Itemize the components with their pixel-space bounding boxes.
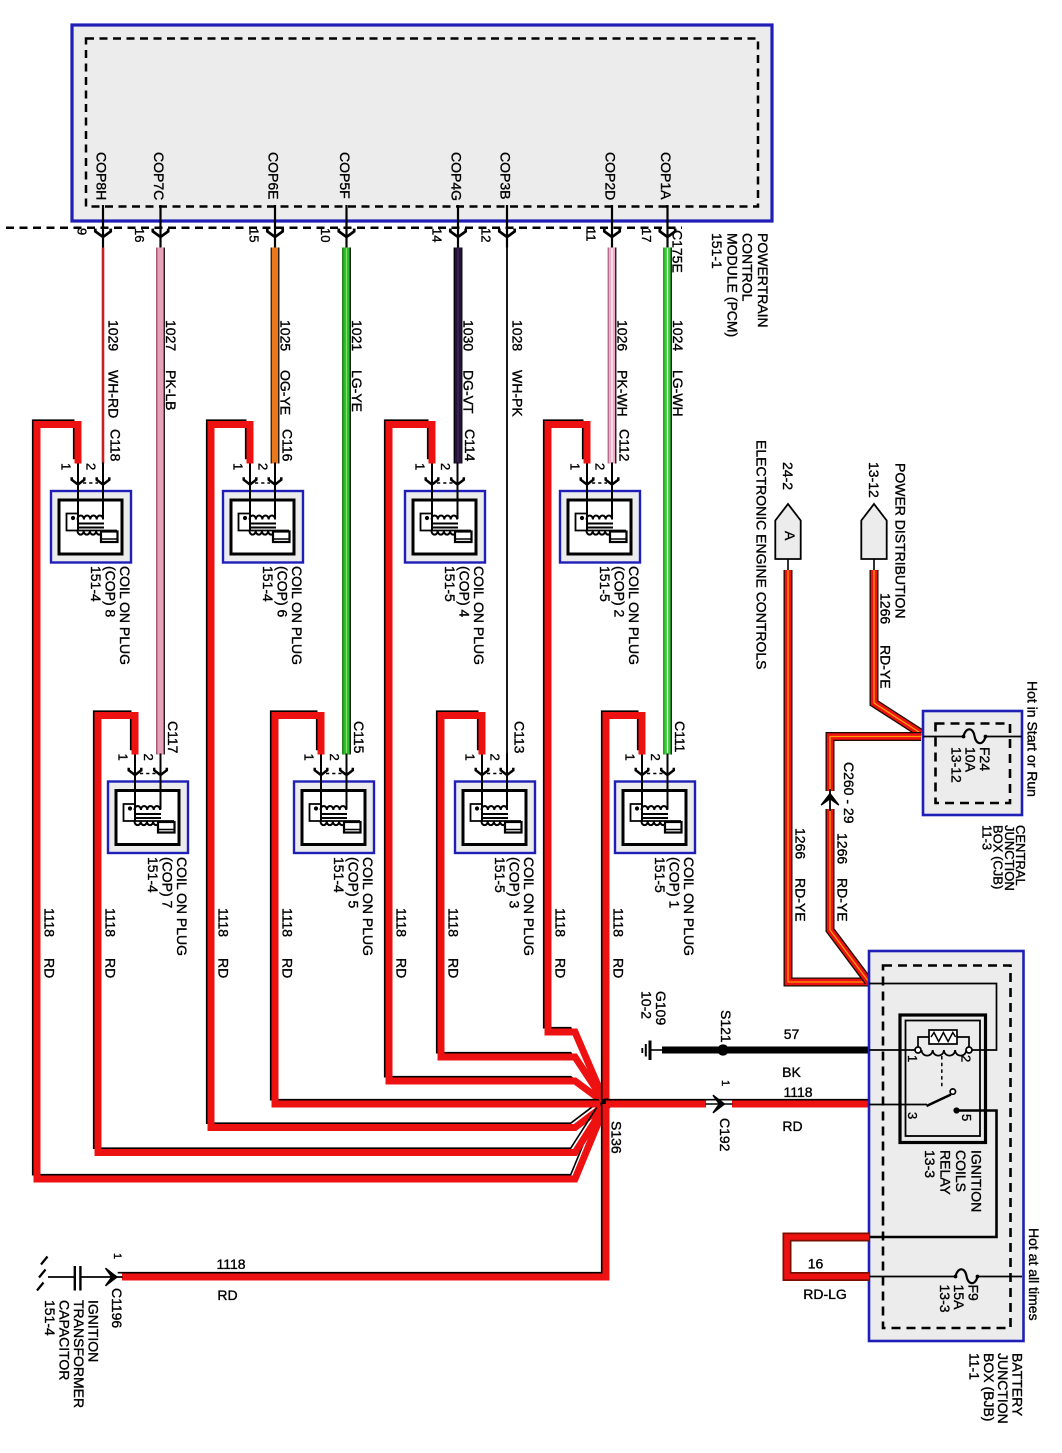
coil on plug COP 7 box <box>108 782 188 854</box>
svg-text:C113: C113 <box>512 721 528 754</box>
svg-text:COILS: COILS <box>953 1150 969 1192</box>
COP 3 connector dashes <box>487 773 502 775</box>
svg-text:RD-YE: RD-YE <box>835 878 851 922</box>
COP 6 pin 2 <box>256 463 282 520</box>
svg-text:151-5: 151-5 <box>652 857 668 893</box>
S121 label <box>718 1010 734 1043</box>
off-page arrow A 24-2 <box>775 504 800 570</box>
POWER DISTRIBUTION label <box>893 463 909 619</box>
svg-text:COP5F: COP5F <box>337 152 353 199</box>
fuse F9 15A <box>869 1269 1022 1283</box>
svg-text:12: 12 <box>479 228 494 242</box>
wire 1118 RD label (COP2 run) <box>553 908 569 937</box>
svg-text:COP7C: COP7C <box>151 152 167 200</box>
svg-text:11-1: 11-1 <box>967 1353 983 1380</box>
svg-text:POWERTRAIN: POWERTRAIN <box>755 233 771 328</box>
svg-text:WH-PK: WH-PK <box>510 370 526 417</box>
svg-text:1: 1 <box>623 754 638 761</box>
ELECTRONIC ENGINE CONTROLS label <box>754 440 770 669</box>
C1196 label <box>109 1288 125 1328</box>
COP 7 label <box>145 857 190 956</box>
svg-text:1118: 1118 <box>446 908 462 937</box>
wire 1118 RD label (COP5 run) <box>280 908 296 937</box>
svg-text:1: 1 <box>568 463 583 470</box>
svg-text:1118: 1118 <box>216 1256 245 1272</box>
relay coil <box>915 1030 972 1056</box>
COP 6 connector dashes <box>255 482 270 484</box>
IGNITION COILS RELAY label <box>922 1150 985 1212</box>
PCM pin 17 COP1A <box>639 152 675 248</box>
PCM connector dashed line <box>6 226 682 229</box>
svg-text:1: 1 <box>719 1080 731 1086</box>
wire 1266 RD-YE from power distribution <box>874 570 922 734</box>
svg-text:MODULE (PCM): MODULE (PCM) <box>724 233 740 337</box>
powertrain control module PCM box 151-1 <box>72 25 772 221</box>
svg-text:1118: 1118 <box>280 908 296 937</box>
wire 1118 RD label (COP1 run) <box>611 908 627 937</box>
svg-text:2: 2 <box>648 754 663 761</box>
svg-text:RD: RD <box>42 958 58 978</box>
svg-text:2: 2 <box>256 463 271 470</box>
svg-text:14: 14 <box>430 228 445 242</box>
svg-text:RD: RD <box>216 958 232 978</box>
wire 1118 RD label (COP8 run) <box>42 908 58 937</box>
svg-text:1118: 1118 <box>394 908 410 937</box>
svg-text:2: 2 <box>327 754 342 761</box>
svg-text:RD-YE: RD-YE <box>878 645 894 689</box>
PCM pin 15 COP6E <box>247 152 283 248</box>
COP 6 label <box>260 566 305 665</box>
wire 1118 RD to relay <box>606 1100 869 1104</box>
CENTRAL JUNCTION BOX label <box>979 825 1028 891</box>
connector C116 label <box>280 429 296 462</box>
svg-text:RD: RD <box>280 958 296 978</box>
svg-text:RD: RD <box>217 1287 237 1303</box>
COP 8 pin 1 <box>59 463 85 531</box>
ground G109 <box>642 1041 663 1061</box>
COP 1 connector dashes <box>647 773 663 775</box>
coil on plug COP 4 box <box>405 491 485 563</box>
svg-text:151-4: 151-4 <box>145 857 161 893</box>
wire 1029 WH-RD <box>103 248 122 464</box>
svg-text:57: 57 <box>784 1026 800 1042</box>
connector C111 label <box>672 721 688 753</box>
svg-text:1029: 1029 <box>106 320 122 351</box>
svg-text:1030: 1030 <box>461 320 477 351</box>
wire 1118 RD label (COP3 run) <box>446 908 462 937</box>
svg-text:11: 11 <box>584 228 599 242</box>
svg-text:RD-YE: RD-YE <box>793 878 809 922</box>
C1196 pin 1 label <box>111 1253 123 1259</box>
COP 3 label <box>492 857 537 956</box>
svg-text:1025: 1025 <box>278 320 294 351</box>
svg-text:15: 15 <box>247 228 262 242</box>
svg-text:POWER DISTRIBUTION: POWER DISTRIBUTION <box>893 463 909 619</box>
svg-text:1118: 1118 <box>216 908 232 937</box>
connector C115 label <box>351 721 367 754</box>
COP 6 pin 1 <box>231 463 257 531</box>
svg-text:3: 3 <box>905 1112 920 1119</box>
1266 RD-YE labels (branch A) <box>793 828 809 859</box>
IGNITION TRANSFORMER CAPACITOR label <box>42 1300 102 1408</box>
COP 2 label <box>597 566 642 665</box>
svg-text:151-5: 151-5 <box>492 857 508 893</box>
svg-text:COP3B: COP3B <box>498 152 514 199</box>
svg-text:Hot at all times: Hot at all times <box>1026 1228 1042 1321</box>
svg-text:C116: C116 <box>280 429 296 462</box>
svg-text:C111: C111 <box>672 721 688 753</box>
fuse F24 10A <box>923 729 1022 743</box>
off-page arrow POWER DISTRIBUTION 13-12 <box>861 504 886 570</box>
svg-text:1: 1 <box>111 1253 123 1259</box>
wire 1021 LG-YE <box>347 248 366 755</box>
wire 1118 RD from COP2 pin 1 <box>544 420 606 1104</box>
wire 1118 RD from COP4 pin 1 <box>385 420 606 1104</box>
COP 8 label <box>88 566 133 665</box>
svg-text:1266: 1266 <box>878 593 894 624</box>
S136 label <box>609 1121 625 1154</box>
Hot at all times label <box>1026 1228 1042 1321</box>
COP 4 label <box>442 566 487 665</box>
svg-text:1027: 1027 <box>163 320 179 351</box>
svg-text:RELAY: RELAY <box>938 1150 954 1196</box>
wire 57 BK <box>662 1047 869 1054</box>
svg-text:A: A <box>782 531 798 541</box>
svg-text:PK-LB: PK-LB <box>163 370 179 410</box>
PCM pin 10 COP5F <box>318 152 354 248</box>
wire 1026 PK-WH <box>612 248 631 464</box>
COP 3 pin 1 <box>463 754 489 822</box>
BATTERY JUNCTION BOX label <box>967 1353 1026 1424</box>
svg-text:COP2D: COP2D <box>603 152 619 200</box>
svg-text:1: 1 <box>116 754 131 761</box>
svg-text:1266: 1266 <box>835 833 851 864</box>
svg-text:CONTROL: CONTROL <box>740 233 756 302</box>
coil on plug COP 5 box <box>294 782 374 854</box>
connector C1196 <box>106 1268 118 1286</box>
connector C112 label <box>617 429 633 462</box>
ignition coils relay box <box>900 1015 986 1143</box>
svg-text:C1196: C1196 <box>109 1288 125 1328</box>
svg-text:1118: 1118 <box>611 908 627 937</box>
COP 7 pin 1 <box>116 754 142 822</box>
svg-text:1028: 1028 <box>510 320 526 351</box>
C192 label <box>717 1118 733 1152</box>
svg-text:COP4G: COP4G <box>449 152 465 201</box>
svg-text:2: 2 <box>438 463 453 470</box>
COP 2 pin 1 <box>568 463 594 531</box>
svg-text:RD: RD <box>394 958 410 978</box>
svg-text:WH-RD: WH-RD <box>106 370 122 418</box>
PCM pin 11 COP2D <box>584 152 620 248</box>
ignition transformer capacitor <box>48 1266 80 1291</box>
svg-text:2: 2 <box>84 463 99 470</box>
svg-text:RD: RD <box>553 958 569 978</box>
svg-text:1024: 1024 <box>670 320 686 351</box>
svg-text:RD: RD <box>782 1118 802 1134</box>
svg-text:1266: 1266 <box>793 828 809 859</box>
svg-text:2: 2 <box>593 463 608 470</box>
svg-text:C117: C117 <box>165 721 181 754</box>
svg-text:24-2: 24-2 <box>780 462 796 490</box>
coil on plug COP 2 box <box>560 491 640 563</box>
connector C114 label <box>462 429 478 462</box>
svg-text:1026: 1026 <box>615 320 631 351</box>
svg-text:13-3: 13-3 <box>922 1150 938 1178</box>
svg-text:C115: C115 <box>351 721 367 754</box>
relay switch <box>869 1089 960 1114</box>
wire 1118 RD from COP3 pin 1 <box>437 711 606 1104</box>
COP 3 pin 2 <box>488 754 514 810</box>
svg-text:151-5: 151-5 <box>442 566 458 602</box>
COP 7 connector dashes <box>140 773 156 775</box>
wire 1028 WH-PK <box>507 248 526 755</box>
COP 4 pin 1 <box>413 463 439 531</box>
svg-text:C118: C118 <box>108 429 124 462</box>
connector C113 label <box>512 721 528 754</box>
svg-text:1: 1 <box>231 463 246 470</box>
13-12 label <box>866 462 882 498</box>
wire 1027 PK-LB <box>161 248 180 755</box>
COP 1 label <box>652 857 697 956</box>
wire 1266 RD-YE branch A <box>788 570 868 982</box>
F9 label <box>937 1285 982 1313</box>
wire 1118 RD label (COP6 run) <box>216 908 232 937</box>
wire 1266 RD-YE from F24 <box>830 737 921 792</box>
svg-text:17: 17 <box>639 228 654 242</box>
relay wire 57 BK inside to terminal 1 <box>869 1049 915 1051</box>
relay output wire to F9 <box>869 1111 997 1238</box>
wire 1025 OG-YE <box>275 248 294 464</box>
svg-text:S136: S136 <box>609 1121 625 1154</box>
svg-text:1: 1 <box>413 463 428 470</box>
wire 1118 RD from COP1 pin 1 <box>602 711 642 1104</box>
svg-text:13-12: 13-12 <box>866 462 882 498</box>
chassis ground at capacitor <box>37 1257 48 1291</box>
svg-text:DG-VT: DG-VT <box>461 370 477 414</box>
svg-text:5: 5 <box>959 1114 974 1121</box>
relay actuation dashed link <box>941 1056 943 1087</box>
svg-text:13-12: 13-12 <box>948 747 964 783</box>
PCM pin 12 COP3B <box>479 152 515 248</box>
svg-text:C112: C112 <box>617 429 633 462</box>
svg-text:RD: RD <box>446 958 462 978</box>
COP 7 pin 2 <box>141 754 167 810</box>
wire 1118 RD from COP6 pin 1 <box>207 420 606 1127</box>
central junction box CJB <box>923 711 1022 815</box>
svg-text:1: 1 <box>905 1055 920 1062</box>
COP 4 connector dashes <box>437 482 453 484</box>
svg-text:S121: S121 <box>718 1010 734 1043</box>
svg-text:16: 16 <box>132 228 147 242</box>
wire 1030 DG-VT <box>458 248 477 464</box>
24-2 label <box>780 462 796 490</box>
svg-text:151-1: 151-1 <box>709 233 725 269</box>
svg-text:1: 1 <box>59 463 74 470</box>
C260 - 29 label <box>841 762 857 824</box>
svg-text:13-3: 13-3 <box>937 1285 953 1313</box>
svg-text:RD: RD <box>103 958 119 978</box>
svg-text:COP8H: COP8H <box>94 152 110 200</box>
connector C118 label <box>108 429 124 462</box>
COP 8 pin 2 <box>84 463 110 520</box>
svg-text:1: 1 <box>302 754 317 761</box>
svg-text:2: 2 <box>488 754 503 761</box>
svg-text:2: 2 <box>141 754 156 761</box>
svg-text:ELECTRONIC ENGINE CONTROLS: ELECTRONIC ENGINE CONTROLS <box>754 440 770 669</box>
COP 2 pin 2 <box>593 463 619 520</box>
Hot in Start or Run label <box>1025 681 1041 797</box>
connector C260 <box>821 794 839 806</box>
coil on plug COP 1 box <box>615 782 695 854</box>
COP 1 pin 2 <box>648 754 674 810</box>
svg-text:1118: 1118 <box>783 1084 812 1100</box>
relay terminal labels 3 5 <box>905 1112 920 1119</box>
G109 label <box>639 991 670 1025</box>
svg-text:1118: 1118 <box>103 908 119 937</box>
wire 1118 RD from COP5 pin 1 <box>271 711 606 1104</box>
wire 1118 RD label (COP7 run) <box>103 908 119 937</box>
COP 5 connector dashes <box>326 773 342 775</box>
svg-text:11-3: 11-3 <box>979 825 994 850</box>
svg-text:16: 16 <box>808 1256 824 1272</box>
connector C117 label <box>165 721 181 754</box>
svg-text:OG-YE: OG-YE <box>278 370 294 415</box>
1266 RD-YE labels (C260 run) <box>835 833 851 864</box>
svg-text:RD: RD <box>611 958 627 978</box>
svg-text:COP6E: COP6E <box>266 152 282 199</box>
coil on plug COP 8 box <box>51 491 131 563</box>
COP 8 connector dashes <box>83 482 98 484</box>
svg-text:C175E: C175E <box>670 230 686 273</box>
svg-text:LG-YE: LG-YE <box>349 370 365 412</box>
PCM pin 16 COP7C <box>132 152 168 248</box>
svg-text:10: 10 <box>318 228 333 242</box>
svg-text:BK: BK <box>782 1064 801 1080</box>
svg-text:COP1A: COP1A <box>658 152 674 200</box>
svg-text:151-4: 151-4 <box>42 1300 58 1336</box>
connector C175E label <box>670 230 686 273</box>
wire 16 RD-LG <box>787 1237 869 1277</box>
wire 1024 LG-WH <box>668 248 687 755</box>
COP 4 pin 2 <box>438 463 464 520</box>
svg-text:Hot in Start or Run: Hot in Start or Run <box>1025 681 1041 797</box>
relay wire from 1266 entry to terminal 2 <box>869 984 997 1051</box>
svg-text:9: 9 <box>75 228 90 235</box>
svg-text:2: 2 <box>959 1055 974 1062</box>
PCM pin 9 COP8H <box>75 152 111 248</box>
COP 5 label <box>331 857 376 956</box>
splice S121 <box>717 1044 728 1055</box>
wire 1118 RD to capacitor <box>81 1104 606 1277</box>
svg-text:151-4: 151-4 <box>260 566 276 602</box>
svg-text:1: 1 <box>463 754 478 761</box>
svg-text:151-4: 151-4 <box>88 566 104 602</box>
F24 label <box>948 747 993 783</box>
svg-text:PK-WH: PK-WH <box>615 370 631 417</box>
svg-text:1118: 1118 <box>42 908 58 937</box>
svg-text:1021: 1021 <box>349 320 365 351</box>
PCM pin 14 COP4G <box>430 152 466 248</box>
COP 5 pin 1 <box>302 754 328 822</box>
C192 pin 1 label <box>719 1080 731 1086</box>
1266 RD-YE labels (power distribution) <box>878 593 894 624</box>
connector C192 <box>713 1095 725 1113</box>
relay terminal labels 1 2 <box>905 1055 920 1062</box>
coil on plug COP 3 box <box>455 782 535 854</box>
svg-text:C114: C114 <box>462 429 478 462</box>
svg-text:RD-LG: RD-LG <box>803 1286 847 1302</box>
svg-text:LG-WH: LG-WH <box>670 370 686 417</box>
svg-text:151-4: 151-4 <box>331 857 347 893</box>
wire 1118 RD label (COP4 run) <box>394 908 410 937</box>
wire 1118 RD from COP8 pin 1 <box>33 420 606 1179</box>
svg-text:C260 - 29: C260 - 29 <box>841 762 857 824</box>
battery junction box BJB <box>869 951 1024 1341</box>
COP 5 pin 2 <box>327 754 353 810</box>
svg-text:10-2: 10-2 <box>639 991 655 1019</box>
splice S136 <box>600 1098 611 1109</box>
coil on plug COP 6 box <box>223 491 303 563</box>
svg-text:1118: 1118 <box>553 908 569 937</box>
COP 1 pin 1 <box>623 754 649 822</box>
svg-text:151-5: 151-5 <box>597 566 613 602</box>
svg-text:C192: C192 <box>717 1118 733 1152</box>
PCM label POWERTRAIN CONTROL MODULE <box>709 233 771 337</box>
svg-text:IGNITION: IGNITION <box>969 1150 985 1212</box>
wire 1118 RD from COP7 pin 1 <box>94 711 606 1152</box>
COP 2 connector dashes <box>592 482 607 484</box>
